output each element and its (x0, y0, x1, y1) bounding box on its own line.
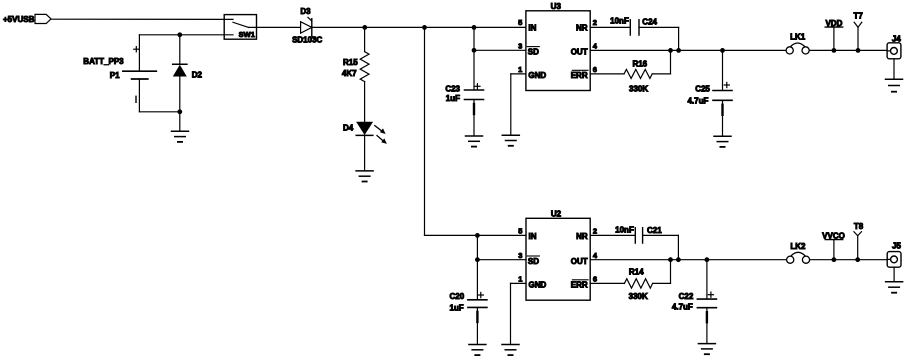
svg-text:330K: 330K (629, 292, 648, 301)
svg-text:1uF: 1uF (446, 94, 460, 103)
svg-text:J5: J5 (892, 242, 901, 251)
svg-text:NR: NR (576, 232, 588, 241)
svg-text:2: 2 (593, 226, 597, 235)
svg-text:C21: C21 (647, 226, 662, 235)
svg-text:U2: U2 (551, 210, 562, 219)
svg-text:D2: D2 (192, 71, 203, 80)
svg-text:GND: GND (528, 71, 546, 80)
svg-text:U3: U3 (551, 2, 562, 11)
svg-text:4.7uF: 4.7uF (672, 303, 693, 312)
svg-text:C25: C25 (695, 84, 710, 93)
svg-text:P1: P1 (110, 71, 120, 80)
svg-text:3: 3 (518, 251, 522, 260)
svg-text:4.7uF: 4.7uF (687, 97, 708, 106)
svg-text:IN: IN (528, 24, 536, 33)
svg-text:R15: R15 (343, 58, 358, 67)
svg-text:10nF: 10nF (615, 225, 634, 234)
svg-text:3: 3 (518, 42, 522, 51)
svg-text:OUT: OUT (571, 257, 588, 266)
svg-text:2: 2 (593, 18, 597, 27)
svg-text:1: 1 (518, 275, 522, 284)
svg-text:LK2: LK2 (790, 242, 806, 251)
svg-text:5: 5 (518, 226, 522, 235)
svg-text:ERR: ERR (571, 281, 588, 290)
svg-text:BATT_PP3: BATT_PP3 (83, 57, 124, 66)
svg-text:D3: D3 (300, 7, 311, 16)
svg-text:GND: GND (529, 281, 547, 290)
svg-text:1: 1 (518, 65, 522, 74)
svg-text:NR: NR (576, 24, 588, 33)
svg-text:R16: R16 (632, 59, 647, 68)
svg-text:J4: J4 (892, 35, 901, 44)
svg-text:ERR: ERR (571, 71, 588, 80)
svg-text:D4: D4 (343, 123, 354, 132)
svg-text:C20: C20 (450, 292, 465, 301)
svg-text:OUT: OUT (571, 47, 588, 56)
svg-text:6: 6 (593, 275, 597, 284)
svg-text:C24: C24 (642, 17, 657, 26)
svg-text:R14: R14 (629, 268, 644, 277)
svg-text:C23: C23 (445, 84, 460, 93)
svg-text:T7: T7 (854, 11, 864, 20)
svg-text:LK1: LK1 (790, 33, 806, 42)
svg-text:330K: 330K (629, 85, 648, 94)
svg-text:5: 5 (518, 18, 522, 27)
svg-text:SD: SD (528, 257, 539, 266)
svg-text:T8: T8 (854, 222, 864, 231)
svg-text:4: 4 (593, 42, 598, 51)
svg-text:+5VUSB: +5VUSB (3, 15, 35, 24)
svg-text:10nF: 10nF (610, 17, 629, 26)
svg-text:SD: SD (528, 47, 539, 56)
svg-text:6: 6 (593, 65, 597, 74)
svg-text:4: 4 (593, 251, 598, 260)
svg-text:4K7: 4K7 (342, 69, 357, 78)
svg-text:SW1: SW1 (239, 30, 255, 39)
svg-text:IN: IN (529, 232, 537, 241)
svg-text:1uF: 1uF (449, 303, 463, 312)
svg-text:C22: C22 (679, 292, 694, 301)
svg-text:SD103C: SD103C (292, 36, 322, 45)
